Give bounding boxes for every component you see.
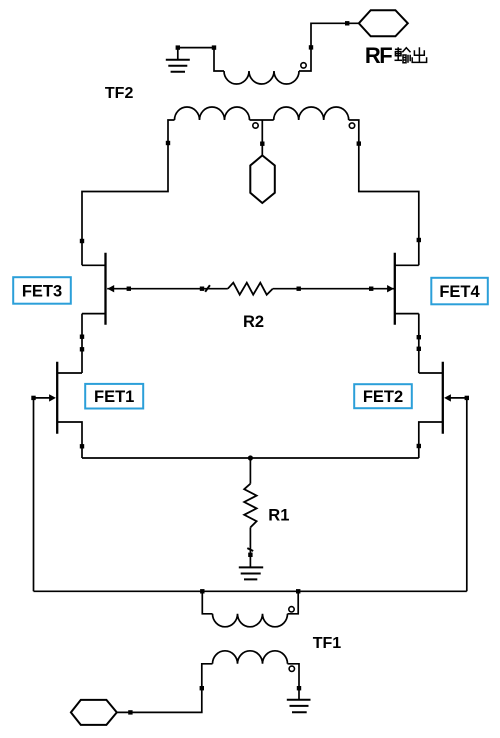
svg-text:FET2: FET2 (363, 388, 403, 406)
svg-text:R2: R2 (243, 313, 264, 331)
svg-text:FET3: FET3 (22, 283, 62, 301)
svg-text:TF2: TF2 (105, 85, 134, 102)
svg-text:FET1: FET1 (94, 388, 134, 406)
svg-text:TF1: TF1 (313, 635, 342, 652)
svg-text:RF: RF (365, 43, 393, 68)
svg-text:R1: R1 (268, 506, 289, 524)
svg-text:FET4: FET4 (439, 283, 480, 301)
